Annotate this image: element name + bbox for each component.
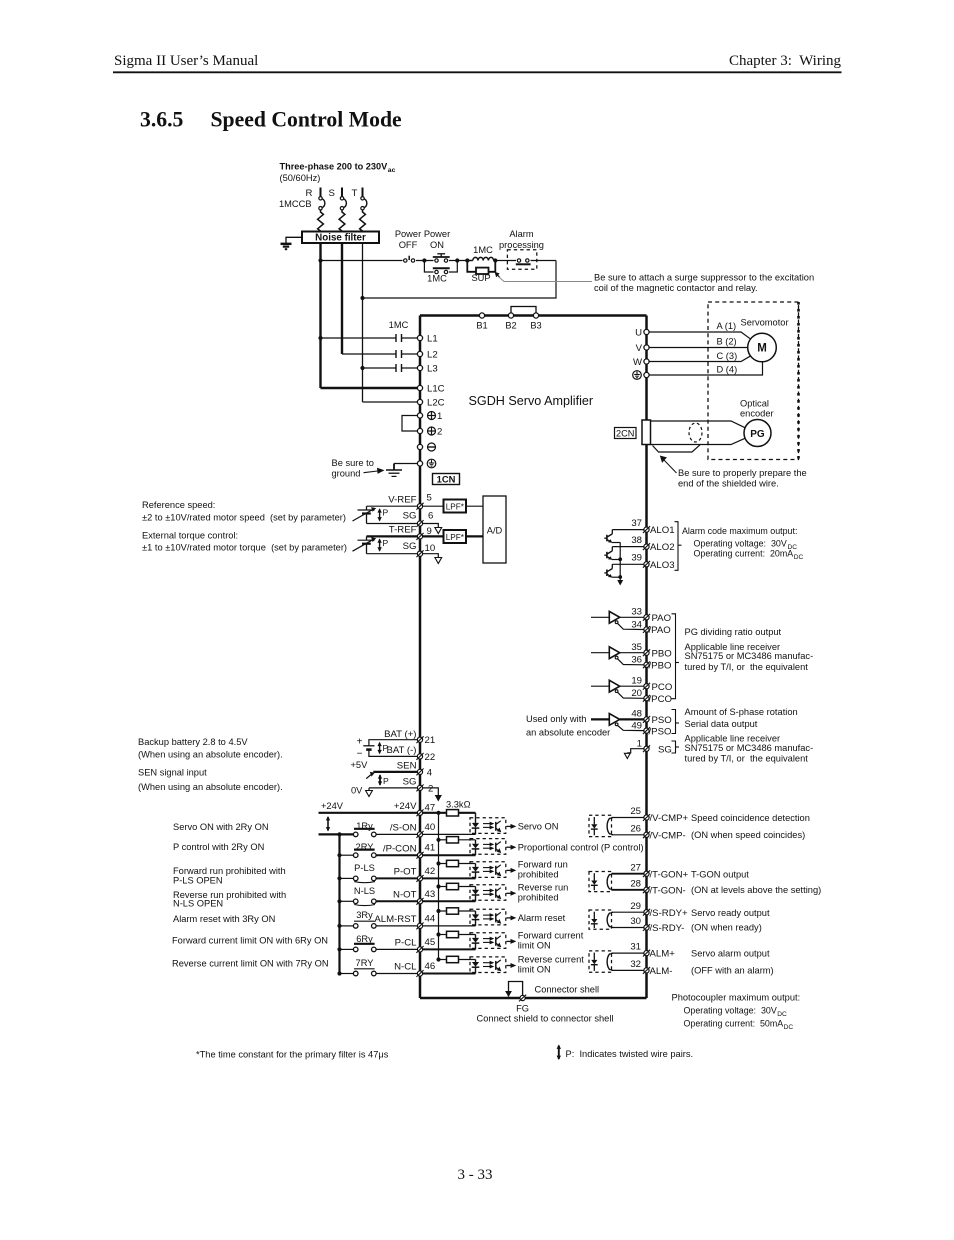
svg-text:Forward current limit ON with: Forward current limit ON with 6Ry ON	[172, 936, 328, 946]
wire SG6	[367, 523, 419, 525]
svg-text:end of the shielded wire.: end of the shielded wire.	[678, 478, 779, 488]
label Servomotor	[741, 318, 789, 328]
svg-text:P: P	[383, 776, 389, 786]
breaker 1MCCB pole T	[352, 188, 367, 232]
terminal earth-plus-1	[417, 411, 442, 422]
terminal /S-ON pin 40	[390, 822, 435, 838]
wire control line	[321, 260, 557, 262]
svg-text:39: 39	[631, 553, 642, 564]
svg-text:L2: L2	[427, 350, 438, 361]
svg-text:ALM+: ALM+	[650, 949, 676, 960]
svg-text:/S-RDY+: /S-RDY+	[650, 908, 689, 919]
wire SG1 drain	[624, 749, 644, 759]
jumper B2-B3	[511, 307, 536, 316]
wire SG10	[367, 553, 419, 555]
svg-text:SG: SG	[403, 776, 417, 787]
junction coil node b	[493, 258, 497, 262]
svg-text:/T-GON-: /T-GON-	[650, 886, 686, 897]
note used only with absolute encoder	[526, 714, 610, 738]
svg-text:A/D: A/D	[487, 526, 503, 536]
svg-text:40: 40	[425, 822, 436, 833]
svg-text:Be sure to attach a surge supp: Be sure to attach a surge suppressor to …	[594, 273, 814, 283]
label 1MC coil	[473, 245, 493, 255]
svg-text:L3: L3	[427, 364, 438, 375]
transistor ALO1	[604, 530, 644, 543]
svg-text:45: 45	[425, 937, 436, 948]
svg-text:B (2): B (2)	[717, 337, 737, 347]
switch Power OFF	[404, 256, 415, 262]
svg-text:26: 26	[630, 823, 641, 834]
filter LPF2	[423, 530, 467, 543]
svg-text:ON: ON	[430, 240, 444, 250]
svg-text:6Ry: 6Ry	[356, 934, 373, 944]
signal arrow Forward current	[507, 930, 584, 950]
svg-text:33: 33	[631, 606, 642, 617]
svg-text:an absolute encoder: an absolute encoder	[526, 728, 610, 738]
breaker 1MCCB pole R	[306, 188, 325, 232]
svg-text:7RY: 7RY	[356, 958, 374, 968]
note Speed coincidence detection	[691, 813, 810, 840]
svg-text:PAO: PAO	[652, 613, 672, 624]
svg-text:22: 22	[425, 752, 436, 763]
wire N-CL	[376, 973, 418, 975]
svg-text:0V: 0V	[351, 786, 363, 796]
svg-text:Operating current: 50mA: Operating current: 50mA	[684, 1019, 784, 1029]
svg-text:+24V: +24V	[321, 801, 344, 811]
svg-text:Operating voltage: 30V: Operating voltage: 30V	[684, 1006, 777, 1016]
terminal L3	[417, 364, 437, 375]
label 0V	[351, 786, 363, 796]
terminal U	[635, 328, 649, 339]
svg-text:3Ry: 3Ry	[356, 910, 373, 920]
signal arrow Reverse current	[507, 955, 585, 975]
note Servo ready output	[691, 908, 770, 933]
shield drain SG2	[423, 788, 442, 802]
svg-text:/V-CMP+: /V-CMP+	[650, 813, 689, 824]
terminal ALO1 pin 37	[631, 518, 674, 536]
shield drain SG6	[423, 524, 442, 534]
legend twisted pair	[557, 1045, 694, 1061]
svg-text:Alarm reset: Alarm reset	[518, 913, 566, 923]
svg-text:32: 32	[630, 959, 641, 970]
note reference speed	[142, 500, 346, 522]
note forward run prohibited	[173, 866, 286, 886]
jumper earth1-earth2	[402, 416, 417, 432]
ground at noise filter	[281, 237, 303, 249]
svg-text:BAT (+): BAT (+)	[384, 729, 416, 740]
line driver PBO	[591, 647, 644, 665]
wire P-CL	[376, 948, 418, 950]
terminal FG	[516, 995, 529, 1014]
connector 2CN	[615, 420, 651, 445]
battery BAT	[357, 737, 418, 760]
svg-text:Serial data output: Serial data output	[685, 719, 758, 729]
svg-text:±2 to ±10V/rated motor speed: ±2 to ±10V/rated motor speed (set by par…	[142, 512, 346, 522]
svg-text:Servo ON with 2Ry ON: Servo ON with 2Ry ON	[173, 822, 269, 832]
svg-text:(50/60Hz): (50/60Hz)	[280, 173, 321, 183]
svg-text:SG: SG	[403, 541, 417, 552]
svg-text:P: P	[383, 508, 389, 518]
svg-text:N-LS: N-LS	[354, 886, 375, 896]
terminal V-REF pin 5	[388, 493, 432, 510]
svg-text:/S-ON: /S-ON	[390, 823, 417, 834]
line driver PCO	[591, 680, 644, 698]
relay contact 1Ry	[337, 821, 376, 837]
svg-text:3 - 33: 3 - 33	[458, 1167, 493, 1183]
svg-text:B3: B3	[530, 321, 541, 331]
svg-text:tured by T/I, or the equivale: tured by T/I, or the equivalent	[685, 662, 809, 672]
wire 24V resistor bus	[423, 813, 447, 960]
terminal /S-RDY+ pin 29	[630, 901, 688, 919]
svg-text:PCO: PCO	[652, 682, 673, 693]
svg-text:R: R	[306, 188, 313, 199]
svg-text:DC: DC	[784, 1024, 794, 1031]
svg-text:L1: L1	[427, 334, 438, 345]
relay contact N-LS	[337, 886, 376, 906]
breaker 1MCCB pole S	[329, 188, 347, 232]
connector label 1CN	[433, 474, 460, 485]
shield drain SG10	[423, 554, 442, 564]
filter LPF1	[423, 500, 467, 513]
svg-text:Used only with: Used only with	[526, 714, 586, 724]
signal arrow Reverse run	[507, 882, 569, 902]
svg-text:Reference speed:: Reference speed:	[142, 500, 215, 510]
terminal /PAO pin 34	[631, 619, 670, 636]
svg-text:Reverse run: Reverse run	[518, 882, 569, 892]
photocoupler output ALM+	[589, 951, 644, 972]
label Power OFF	[395, 229, 421, 250]
contact alarm processing	[516, 259, 531, 265]
terminal PCO pin 19	[631, 675, 672, 693]
note Alarm reset with 3Ry ON	[173, 914, 275, 924]
svg-text:P-LS OPEN: P-LS OPEN	[173, 876, 223, 886]
contact 1MC L2	[342, 350, 418, 358]
svg-text:B2: B2	[505, 321, 516, 331]
bracket PSO	[672, 710, 680, 734]
svg-text:37: 37	[631, 518, 642, 529]
resistor 3.3k row 44	[436, 908, 475, 914]
svg-text:Photocoupler maximum output:: Photocoupler maximum output:	[672, 993, 801, 1003]
svg-text:External torque control:: External torque control:	[142, 530, 238, 540]
label SGDH Servo Amplifier	[469, 394, 594, 408]
svg-text:T-GON output: T-GON output	[691, 869, 749, 879]
svg-text:ALO1: ALO1	[650, 525, 675, 536]
svg-text:46: 46	[425, 961, 436, 972]
wire phase R vertical	[319, 243, 321, 388]
svg-text:encoder: encoder	[740, 409, 774, 419]
svg-text:ground: ground	[332, 469, 361, 479]
svg-text:Forward run prohibited with: Forward run prohibited with	[173, 866, 286, 876]
relay contact 3Ry	[337, 910, 376, 928]
svg-text:D (4): D (4)	[717, 365, 738, 375]
svg-text:T-REF: T-REF	[389, 525, 417, 536]
svg-text:Power: Power	[395, 229, 421, 239]
relay contact P-LS	[337, 863, 376, 883]
terminal SEN pin 4	[397, 760, 433, 778]
wire /S-ON	[376, 833, 418, 835]
wire ALM-RST	[376, 925, 418, 927]
transistor ALO2	[604, 547, 644, 560]
motor M	[748, 333, 777, 362]
terminal L2C	[417, 398, 444, 409]
svg-text:Alarm reset with 3Ry ON: Alarm reset with 3Ry ON	[173, 914, 275, 924]
svg-text:M: M	[757, 343, 767, 355]
svg-text:+5V: +5V	[351, 760, 369, 770]
svg-text:1MC: 1MC	[389, 320, 409, 330]
svg-text:(OFF with an alarm): (OFF with an alarm)	[691, 966, 774, 976]
wire motor C	[649, 351, 751, 362]
wire T-REF	[367, 535, 419, 537]
svg-text:10: 10	[425, 543, 436, 554]
resistor 3.3k row 40	[447, 810, 476, 816]
svg-text:/S-RDY-: /S-RDY-	[650, 923, 685, 934]
label 3.3k	[446, 800, 471, 810]
resistor 3.3k row 46	[436, 956, 475, 962]
svg-text:Be sure to properly prepare th: Be sure to properly prepare the	[678, 468, 807, 478]
terminal minus	[417, 443, 435, 451]
twisted pair marker P4	[378, 774, 389, 786]
connector shell shield	[505, 982, 522, 998]
svg-text:L1C: L1C	[427, 384, 445, 395]
svg-text:Three-phase 200 to 230V: Three-phase 200 to 230V	[280, 162, 389, 172]
wire L2C feed	[363, 401, 419, 403]
potentiometer torque reference	[353, 536, 377, 553]
wire L1C feed	[321, 387, 419, 389]
svg-text:2: 2	[437, 427, 442, 438]
svg-text:(When using an absolute encode: (When using an absolute encoder).	[138, 750, 283, 760]
SGDH servo amplifier box	[420, 316, 647, 999]
svg-text:±1 to ±10V/rated motor torque: ±1 to ±10V/rated motor torque (set by pa…	[142, 543, 347, 553]
svg-text:2: 2	[428, 783, 433, 794]
resistor 3.3k row 41	[436, 837, 475, 843]
motor enclosure dashed box	[708, 302, 799, 460]
note Servo alarm output	[691, 949, 774, 976]
note be sure to ground	[332, 458, 385, 479]
svg-text:(When using an absolute encode: (When using an absolute encoder).	[138, 782, 283, 792]
note Servo ON with 2Ry ON	[173, 822, 269, 832]
svg-text:Be sure to: Be sure to	[332, 458, 374, 468]
svg-text:LPF*: LPF*	[446, 503, 465, 512]
twisted pair marker P1	[377, 508, 388, 522]
terminal ALM-RST pin 44	[374, 913, 435, 929]
svg-text:4: 4	[427, 768, 433, 779]
optocoupler input row 44	[423, 909, 506, 926]
relay contact 2RY	[337, 842, 376, 858]
svg-text:coil of the magnetic contactor: coil of the magnetic contactor and relay…	[594, 283, 758, 293]
label +5V	[351, 760, 369, 770]
terminal T-REF pin 9	[389, 525, 432, 540]
note S-phase output	[685, 707, 814, 764]
svg-text:SGDH Servo Amplifier: SGDH Servo Amplifier	[469, 394, 594, 408]
svg-text:Servo alarm output: Servo alarm output	[691, 949, 770, 959]
label +24V left	[321, 801, 344, 811]
terminal earth-plus-2	[417, 427, 442, 438]
svg-text:P-OT: P-OT	[394, 867, 417, 878]
terminal /V-CMP+ pin 25	[630, 806, 688, 824]
photocoupler output /S-RDY+	[589, 910, 644, 929]
resistor 3.3k row 43	[436, 883, 475, 889]
svg-text:31: 31	[630, 942, 641, 953]
switch Power ON	[433, 254, 450, 262]
svg-text:/PBO: /PBO	[649, 661, 672, 672]
label Alarm processing	[499, 229, 544, 250]
label 1MCCB	[279, 199, 312, 209]
svg-text:BAT (-): BAT (-)	[386, 745, 416, 756]
note photocoupler maximum output	[672, 993, 801, 1032]
svg-text:1: 1	[637, 738, 642, 749]
svg-text:25: 25	[630, 806, 641, 817]
note T-GON output	[691, 869, 821, 895]
note Forward current limit ON with 6Ry ON	[172, 936, 328, 946]
contact 1MC L1	[321, 334, 419, 342]
terminal PBO pin 35	[631, 642, 671, 660]
note shield leader	[660, 456, 677, 474]
bracket PG output	[672, 614, 680, 699]
svg-text:Reverse current: Reverse current	[518, 955, 585, 965]
terminal ALO3 pin 39	[631, 553, 674, 571]
terminal B1	[476, 313, 487, 331]
page header	[113, 53, 842, 72]
svg-text:S: S	[329, 188, 335, 199]
svg-text:Speed Control Mode: Speed Control Mode	[211, 108, 403, 132]
wire relay bus left	[319, 834, 354, 973]
bracket alarm code	[675, 522, 682, 571]
svg-text:P control with 2Ry ON: P control with 2Ry ON	[173, 842, 264, 852]
svg-text:30: 30	[630, 916, 641, 927]
signal arrow Forward run	[507, 859, 568, 879]
terminal +24V pin 47	[394, 801, 435, 816]
svg-text:PG dividing ratio output: PG dividing ratio output	[685, 627, 782, 637]
junction control node a	[422, 258, 426, 262]
junction 24V bus	[436, 811, 440, 815]
contact 1MC L3	[363, 364, 419, 372]
transistor ALO3	[604, 564, 644, 577]
noise filter	[302, 232, 379, 244]
svg-text:6: 6	[428, 511, 433, 522]
svg-text:W: W	[633, 357, 643, 368]
svg-text:FG: FG	[516, 1004, 529, 1014]
shield fold wire	[653, 445, 701, 452]
svg-text:Chapter 3: Wiring: Chapter 3: Wiring	[729, 53, 842, 69]
note surge suppressor text	[594, 273, 814, 293]
svg-text:V: V	[636, 343, 643, 354]
wire N-OT	[376, 900, 418, 902]
surge suppressor SUP	[467, 261, 495, 275]
svg-text:limit ON: limit ON	[518, 940, 551, 950]
svg-text:42: 42	[425, 866, 436, 877]
svg-text:41: 41	[425, 843, 436, 854]
contact 1MC holding	[424, 261, 457, 274]
svg-text:DC: DC	[794, 554, 804, 561]
svg-text:SUP: SUP	[471, 273, 490, 283]
svg-text:SEN signal input: SEN signal input	[138, 768, 207, 778]
terminal BAT+ pin 21	[384, 729, 435, 746]
svg-text:Alarm code maximum output:: Alarm code maximum output:	[682, 526, 797, 536]
photocoupler output /V-CMP+	[589, 815, 644, 836]
terminal /V-CMP- pin 26	[630, 823, 685, 841]
svg-text:limit ON: limit ON	[518, 965, 551, 975]
terminal /T-GON- pin 28	[630, 878, 685, 896]
svg-text:V-REF: V-REF	[388, 495, 416, 506]
svg-text:35: 35	[631, 642, 642, 653]
svg-text:19: 19	[631, 675, 642, 686]
svg-text:Operating current: 20mA: Operating current: 20mA	[694, 549, 794, 559]
svg-text:1MCCB: 1MCCB	[279, 199, 312, 209]
svg-text:ALO3: ALO3	[650, 560, 675, 571]
terminal V	[636, 343, 650, 354]
wire motor B	[649, 337, 748, 348]
encoder cable	[651, 421, 745, 445]
svg-text:Power: Power	[424, 229, 450, 239]
junction T to L3	[360, 366, 364, 370]
svg-text:2CN: 2CN	[616, 428, 634, 438]
label Connector shell	[535, 984, 600, 994]
svg-text:1MC: 1MC	[427, 274, 447, 284]
svg-text:U: U	[635, 328, 642, 339]
wire P-OT	[376, 877, 418, 879]
svg-text:Optical: Optical	[740, 399, 769, 409]
terminal /P-CON pin 41	[383, 843, 435, 859]
svg-text:Connect shield to connector sh: Connect shield to connector shell	[477, 1014, 614, 1024]
svg-text:/T-GON+: /T-GON+	[650, 869, 689, 880]
resistor 3.3k row 45	[436, 931, 475, 937]
svg-text:Alarm: Alarm	[509, 229, 534, 239]
svg-text:prohibited: prohibited	[518, 892, 559, 902]
terminal PSO pin 48	[631, 709, 671, 727]
svg-text:PBO: PBO	[652, 648, 672, 659]
note prepare shield text	[678, 468, 807, 488]
note connect shield	[477, 1014, 614, 1024]
ground at amplifier	[386, 464, 418, 477]
svg-text:/PAO: /PAO	[649, 625, 671, 636]
svg-text:Backup battery 2.8 to 4.5V: Backup battery 2.8 to 4.5V	[138, 737, 248, 747]
svg-text:Forward run: Forward run	[518, 859, 568, 869]
terminal PAO pin 33	[631, 606, 671, 624]
terminal SG pin 1	[637, 738, 672, 755]
terminal /S-RDY- pin 30	[630, 916, 684, 934]
svg-text:ALM-RST: ALM-RST	[374, 914, 416, 925]
signal arrow Proportional control (P control)	[507, 843, 644, 853]
label three-phase supply	[280, 162, 396, 184]
note PG dividing output	[685, 627, 814, 672]
svg-text:36: 36	[631, 655, 642, 666]
terminal P-OT pin 42	[394, 866, 436, 882]
svg-text:PSO: PSO	[652, 715, 672, 726]
terminal ALO2 pin 38	[631, 535, 674, 553]
twisted pair marker P3	[377, 742, 388, 755]
relay contact 6Ry	[337, 934, 376, 952]
alarm processing contact box	[507, 250, 536, 269]
optocoupler input row 43	[423, 885, 506, 902]
svg-text:ALO2: ALO2	[650, 542, 675, 553]
label Optical encoder	[740, 399, 774, 419]
wire control return	[363, 261, 557, 299]
wire +24V	[319, 812, 419, 814]
note SEN signal	[138, 768, 283, 793]
svg-text:28: 28	[630, 878, 641, 889]
wire motor D ground	[649, 362, 763, 375]
svg-text:+24V: +24V	[394, 801, 417, 812]
svg-text:ALM-: ALM-	[650, 966, 673, 977]
svg-text:5: 5	[427, 493, 432, 504]
line driver PAO	[591, 611, 644, 629]
svg-text:Proportional control (P contro: Proportional control (P control)	[518, 843, 644, 853]
terminal /T-GON+ pin 27	[630, 862, 688, 880]
wire phase T vertical	[362, 243, 364, 402]
svg-text:OFF: OFF	[399, 240, 418, 250]
label SUP	[471, 273, 490, 283]
svg-text:SN75175 or MC3486 manufac-: SN75175 or MC3486 manufac-	[685, 743, 814, 753]
